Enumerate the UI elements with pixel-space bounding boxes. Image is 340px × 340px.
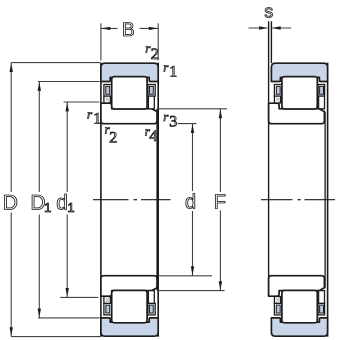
roller top bbox=[112, 77, 147, 109]
centreline left view bbox=[93, 199, 171, 201]
cage rivet left right top bbox=[274, 96, 280, 103]
svg-text:1: 1 bbox=[93, 111, 101, 128]
svg-text:4: 4 bbox=[149, 128, 157, 145]
cage bar right right top bbox=[318, 85, 325, 97]
inner ring top bbox=[101, 103, 157, 124]
svg-text:1: 1 bbox=[169, 63, 177, 80]
inner ring bottom bbox=[101, 276, 157, 297]
svg-text:d: d bbox=[185, 191, 196, 213]
dimension s bbox=[249, 27, 268, 29]
dimension D1 bbox=[38, 81, 100, 83]
roller right top bbox=[282, 77, 317, 109]
dimension d bbox=[178, 123, 197, 125]
svg-text:d: d bbox=[56, 192, 68, 215]
wire left-view right face line bbox=[157, 63, 159, 337]
cage bar right right bottom bbox=[318, 303, 325, 315]
wire left-view inner-ring right face line bbox=[156, 109, 158, 291]
outer ring right bottom bbox=[271, 318, 327, 336]
cage channel right bottom bbox=[148, 291, 154, 304]
svg-text:2: 2 bbox=[109, 130, 117, 147]
outer ring right top bbox=[271, 63, 327, 81]
svg-text:B: B bbox=[122, 20, 135, 41]
cage bar left right top bbox=[274, 85, 281, 97]
wire s outer-ring face line bbox=[270, 21, 272, 63]
cage rivet left bottom bbox=[104, 297, 111, 304]
wire s inner-ring face line bbox=[268, 21, 270, 296]
svg-text:D: D bbox=[3, 192, 18, 215]
cage channel right right bottom bbox=[319, 291, 325, 304]
dimension F bbox=[158, 108, 227, 110]
cage bar left top bbox=[104, 85, 112, 97]
svg-text:2: 2 bbox=[151, 46, 159, 63]
wire left-view left face line bbox=[100, 63, 102, 337]
outer ring bottom bbox=[101, 318, 158, 336]
svg-text:3: 3 bbox=[169, 114, 177, 131]
roller bottom bbox=[112, 290, 147, 322]
svg-text:s: s bbox=[264, 2, 273, 22]
cage rivet left right bottom bbox=[274, 297, 280, 304]
wire right-view right face line bbox=[327, 63, 329, 337]
cage rivet left top bbox=[104, 96, 111, 103]
dimension D bbox=[11, 62, 100, 64]
inner ring right bottom bbox=[269, 276, 325, 297]
roller right bottom bbox=[282, 290, 317, 322]
dimension B bbox=[100, 23, 102, 60]
cage bar right top bbox=[148, 85, 155, 97]
dimension d1 bbox=[64, 101, 100, 103]
cage bar right bottom bbox=[148, 303, 155, 315]
inner ring right top bbox=[269, 103, 325, 124]
cage channel right right top bbox=[319, 96, 325, 109]
outer ring top bbox=[101, 63, 158, 81]
cage bar left right bottom bbox=[274, 303, 281, 315]
centreline right view bbox=[261, 199, 335, 201]
svg-text:1: 1 bbox=[44, 200, 51, 215]
svg-text:1: 1 bbox=[67, 200, 74, 215]
cage bar left bottom bbox=[104, 303, 112, 315]
wire right-view inner-ring right face line bbox=[324, 112, 326, 288]
cage channel right top bbox=[148, 96, 154, 109]
svg-text:F: F bbox=[214, 191, 226, 213]
